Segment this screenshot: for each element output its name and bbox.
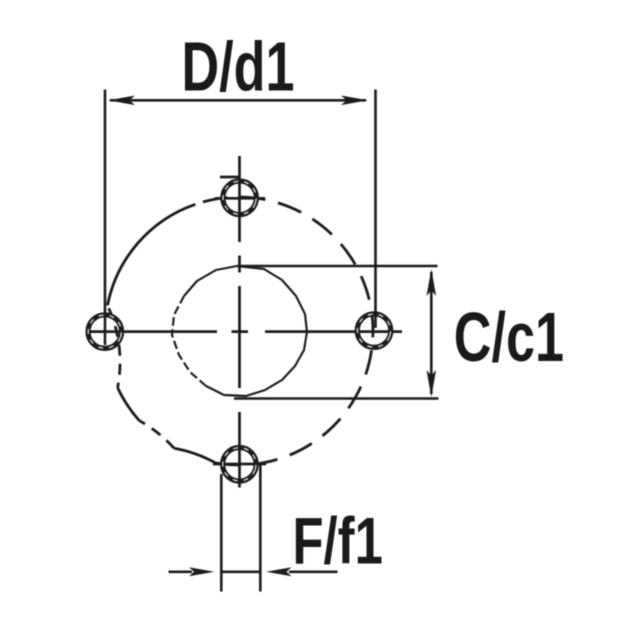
F dimension left arrowhead <box>189 567 215 576</box>
svg-text:F/f1: F/f1 <box>293 505 383 578</box>
bolt hole left <box>84 310 127 353</box>
bolt hole bottom <box>218 443 261 486</box>
D dimension left arrowhead <box>108 96 135 106</box>
C dimension line <box>430 272 433 394</box>
D dimension right arrowhead <box>341 96 368 106</box>
bolt circle dashed arc (top, right, bottom) <box>195 197 373 465</box>
svg-text:D/d1: D/d1 <box>182 28 295 106</box>
vertical centerline <box>238 156 241 488</box>
F dimension line between extension lines <box>221 570 260 573</box>
center bore polygon dashed left arc <box>172 296 206 386</box>
bolt circle dashed arc (left below hole) <box>108 305 121 387</box>
top hole centermark tick <box>215 197 265 200</box>
bottom hole centermark tick <box>213 463 266 466</box>
C dimension top extension line <box>240 265 438 268</box>
bolt hole right <box>353 309 396 352</box>
F dimension right extension line <box>259 463 262 592</box>
F dimension right arrow shaft <box>289 570 338 573</box>
F dimension left extension line <box>220 474 223 592</box>
C dimension bottom extension line <box>234 397 439 400</box>
bolt hole top <box>218 177 261 220</box>
D dimension right extension line <box>374 90 377 329</box>
D dimension left extension line <box>104 90 107 346</box>
F dimension left arrow shaft <box>169 570 193 573</box>
C dimension top arrowhead <box>427 269 437 296</box>
F dimension right arrowhead <box>266 567 292 576</box>
bolt circle solid arc (lower left b) <box>174 448 216 463</box>
center bore polygon solid part <box>184 266 307 396</box>
svg-text:C/c1: C/c1 <box>454 299 564 377</box>
D dimension line <box>110 99 366 102</box>
horizontal centerline <box>86 330 402 333</box>
bolt circle solid arc (upper left) <box>108 204 196 305</box>
bolt circle dashed arc (lower left gaps) <box>139 421 174 449</box>
bolt circle solid arc (lower left a) <box>118 388 140 421</box>
C dimension bottom arrowhead <box>427 370 437 397</box>
stray dash above top hole <box>220 176 240 179</box>
